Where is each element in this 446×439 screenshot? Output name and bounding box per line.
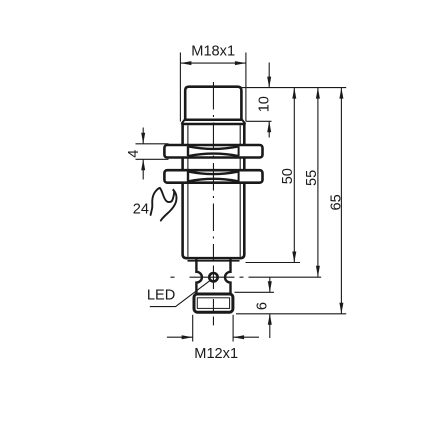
dim M12x1 right arrow bbox=[233, 335, 244, 339]
thread minor line right bbox=[239, 125, 241, 257]
dim 4 lower tail bbox=[142, 159, 144, 179]
dim 65 arrow top bbox=[339, 88, 343, 99]
top reference extension line bbox=[241, 87, 346, 89]
dim 50 arrow top bbox=[292, 88, 296, 99]
dim 55 arrow bottom bbox=[316, 266, 320, 277]
dim 10 upper tail bbox=[268, 63, 270, 88]
nut 2 chamfer arc top bbox=[189, 172, 239, 175]
dim 6 lower tail bbox=[269, 314, 271, 338]
dim 10 bottom extension line bbox=[246, 120, 272, 122]
dim 6 lower arrow bbox=[268, 314, 272, 325]
dim 4 upper arrow bbox=[141, 133, 145, 144]
dim M18x1 arrow left bbox=[180, 61, 191, 65]
threaded barrel outline bbox=[183, 124, 245, 258]
dim M12x1 left tail bbox=[167, 336, 193, 338]
svg-text:55: 55 bbox=[304, 170, 320, 186]
hex nut 1 body bbox=[164, 145, 262, 158]
neck right outline with LED notch bbox=[225, 259, 231, 294]
svg-text:M12x1: M12x1 bbox=[194, 346, 238, 362]
M12 connector hex bbox=[194, 294, 233, 312]
dim 10 lower tail bbox=[268, 121, 270, 137]
dim 65 bottom extension line bbox=[236, 313, 346, 315]
head-to-barrel flare left bbox=[181, 120, 184, 124]
dim 10 upper arrow bbox=[267, 77, 271, 88]
nut 2 chamfer arc bottom bbox=[189, 179, 239, 182]
dim 50 bottom extension line bbox=[246, 262, 301, 264]
dim M18x1 extension line right bbox=[245, 53, 247, 122]
dim 4 upper tail bbox=[142, 128, 144, 144]
svg-text:10: 10 bbox=[257, 96, 273, 112]
dim M18x1 dimension line bbox=[180, 62, 246, 64]
dim 4 top extension line bbox=[136, 143, 169, 145]
LED leader line bbox=[150, 280, 211, 307]
dim M12x1 right tail bbox=[233, 336, 259, 338]
dim M12x1 extension line left bbox=[192, 315, 194, 342]
head-to-barrel flare right bbox=[242, 120, 245, 124]
nut 2 right flat boundary bbox=[238, 171, 240, 181]
nut 1 chamfer arc top bbox=[189, 146, 239, 149]
dim M18x1 arrow right bbox=[235, 61, 246, 65]
dim 4 bottom extension line bbox=[136, 158, 169, 160]
nut 1 right flat boundary bbox=[238, 146, 240, 156]
svg-text:50: 50 bbox=[280, 168, 296, 184]
dim 10 lower arrow bbox=[267, 121, 271, 132]
svg-text:4: 4 bbox=[126, 150, 142, 158]
hex nut 2 body bbox=[164, 170, 262, 183]
svg-text:LED: LED bbox=[147, 288, 175, 304]
dim 6 upper tail bbox=[269, 277, 271, 292]
LED indicator circle bbox=[209, 273, 217, 281]
head bottom edge bbox=[184, 119, 243, 122]
svg-text:65: 65 bbox=[329, 194, 345, 210]
thread minor line left bbox=[187, 125, 189, 257]
dim M12x1 extension line right bbox=[232, 315, 234, 342]
dim M12x1 left arrow bbox=[182, 335, 193, 339]
svg-text:6: 6 bbox=[254, 302, 270, 310]
wrench size symbol bbox=[151, 188, 177, 221]
vertical centerline bbox=[212, 82, 214, 325]
dim 50 arrow bottom bbox=[292, 252, 296, 263]
LED crosshair horizontal dash-dot bbox=[171, 276, 322, 278]
nut 1 chamfer arc bottom bbox=[189, 154, 239, 157]
dim 65 dimension line bbox=[340, 88, 342, 314]
dim 4 lower arrow bbox=[141, 159, 145, 170]
dim 55 dimension line bbox=[317, 88, 319, 277]
nut 1 left flat boundary bbox=[187, 146, 189, 156]
M12 connector inner face bbox=[197, 298, 229, 309]
LED crosshair vertical bbox=[212, 266, 214, 290]
barrel top edge bbox=[181, 123, 245, 126]
dim 65 arrow bottom bbox=[339, 303, 343, 314]
svg-text:24: 24 bbox=[133, 201, 149, 217]
dim 6 upper arrow bbox=[268, 281, 272, 292]
sensor head M18 body top bbox=[185, 87, 241, 120]
nut 2 left flat boundary bbox=[187, 171, 189, 181]
svg-text:M18x1: M18x1 bbox=[191, 43, 235, 59]
barrel end face line bbox=[188, 260, 240, 262]
neck left outline with LED notch bbox=[196, 259, 202, 294]
dim 50 dimension line bbox=[293, 88, 295, 263]
dim M18x1 extension line left bbox=[179, 53, 181, 122]
dim 55 arrow top bbox=[316, 88, 320, 99]
dim 6 top extension line bbox=[235, 291, 275, 293]
